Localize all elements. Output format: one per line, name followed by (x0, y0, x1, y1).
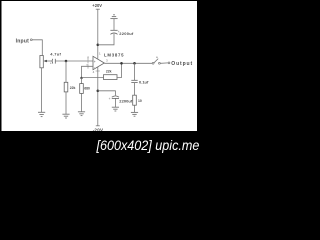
wire node A down to 22k (65, 61, 67, 82)
svg-text:22k: 22k (106, 70, 112, 74)
ground (pot) (38, 112, 45, 116)
wire output (104, 62, 152, 64)
wire +20V rail (96, 9, 100, 58)
wire switch to output terminal (160, 62, 168, 64)
wire -in from triangle to corner (82, 66, 94, 78)
potentiometer wiper arrow (44, 60, 53, 63)
resistor 22k (feedback) (104, 75, 118, 80)
wire top cap to ground (113, 19, 115, 30)
wire node B to feedback resistor (82, 77, 104, 79)
switch S1 right contact (159, 62, 161, 64)
svg-text:Input: Input (16, 39, 30, 45)
wire input to pot top (32, 40, 42, 56)
svg-text:+: + (94, 60, 96, 64)
wire V- rail down (97, 67, 99, 126)
wire 680 to ground (81, 93, 83, 111)
svg-text:4.7uf: 4.7uf (50, 51, 61, 56)
switch S1 lever (154, 59, 158, 63)
node B junction (-in / feedback) (80, 77, 82, 79)
black surround (0, 0, 204, 156)
ground (22k) (62, 114, 69, 118)
wire zobel cap to resistor (134, 83, 136, 96)
op-amp U1 LM3875 (93, 53, 124, 70)
node top rail junction (97, 44, 100, 47)
wire cap to +in node (56, 60, 93, 62)
capacitor 2200uf (V+ decoupling) (110, 30, 133, 36)
svg-text:22k: 22k (70, 86, 76, 90)
svg-text:2200uf: 2200uf (119, 31, 134, 36)
node bottom rail junction (97, 90, 100, 93)
wire output node 2 down to zobel cap (134, 63, 136, 80)
ground (zobel) (131, 112, 138, 116)
capacitor 0.1uf (zobel) (131, 79, 149, 84)
switch S1 left contact (152, 62, 154, 64)
wire feedback resistor to output node (117, 63, 122, 77)
resistor 22k (input load) (64, 82, 75, 92)
svg-text:Output: Output (171, 61, 193, 67)
svg-text:+: + (109, 97, 111, 101)
node Input terminal (16, 39, 33, 45)
wire node B down to 680 (81, 78, 83, 84)
wire rail to bottom cap (98, 91, 116, 96)
svg-text:LM3875: LM3875 (104, 53, 124, 58)
pin tick +in (87, 59, 89, 64)
node output junction 2 (133, 62, 136, 65)
node A junction (input node) (65, 60, 68, 63)
svg-text:+20V: +20V (92, 3, 102, 8)
node Output terminal (168, 62, 170, 64)
capacitor 4.7uf (input coupling) (50, 59, 55, 66)
svg-text:2200uf: 2200uf (119, 99, 133, 104)
ground (bottom cap) (112, 107, 119, 111)
ground (680) (78, 112, 85, 116)
resistor 10 (zobel) (133, 95, 142, 105)
potentiometer (volume) body (40, 56, 43, 68)
wire bottom cap to ground (114, 98, 116, 107)
pin tick V- (96, 70, 100, 72)
resistor 680 (gain set) (80, 84, 90, 94)
wire pot bottom to ground (41, 68, 43, 112)
-20V rail end tick (96, 125, 100, 127)
watermark bar (0, 131, 204, 156)
capacitor 2200uf (V- decoupling) (109, 96, 133, 104)
node output junction 1 (120, 62, 123, 65)
white schematic sheet (2, 1, 198, 132)
wire rail to top cap (98, 34, 114, 45)
wire 22k to ground (65, 92, 67, 114)
svg-text:+: + (50, 62, 52, 66)
svg-text:0.1uf: 0.1uf (139, 79, 149, 84)
pin tick -in (87, 64, 89, 68)
ground (top, inverted) (110, 15, 117, 19)
svg-text:10: 10 (138, 99, 142, 103)
wire zobel resistor to ground (134, 105, 136, 112)
svg-text:680: 680 (84, 86, 90, 90)
